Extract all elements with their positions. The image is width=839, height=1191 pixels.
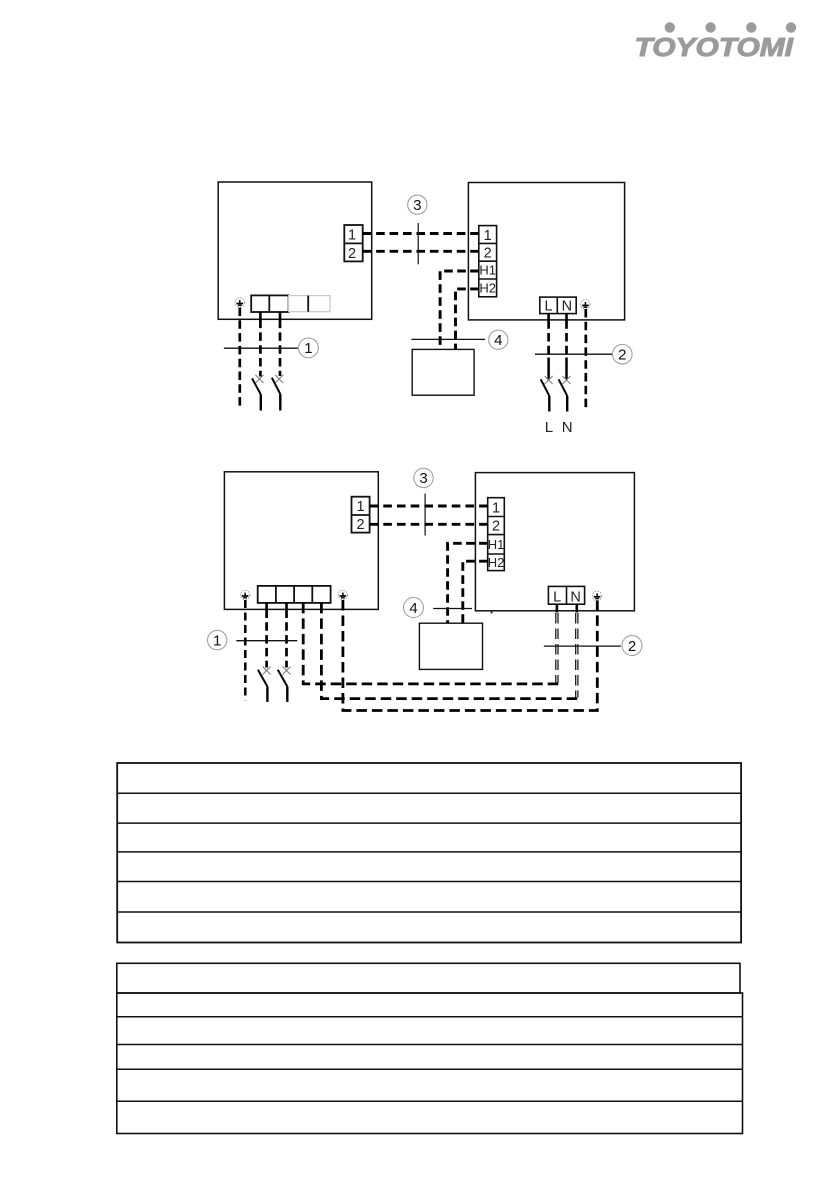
loop wire cell4 to N D2 (321, 603, 578, 699)
terminal block L/N outdoor D2 (548, 586, 584, 604)
part 4 box D1 (412, 349, 474, 395)
wire N dashed D1 (565, 320, 568, 357)
breaker x-mark 2 D2 (283, 667, 291, 675)
svg-text:H1: H1 (479, 263, 496, 278)
breaker blade L D1 (541, 379, 550, 396)
callout circle 2 D1 (613, 344, 633, 364)
loop wire riser N D2 (hollow dash) (576, 613, 578, 698)
callout leader 4 D1 (411, 338, 485, 340)
wire stub cell2 indoor D2 (285, 603, 288, 610)
table 2 row line d (117, 1100, 743, 1102)
callout leader 4 D2 (433, 608, 472, 610)
table 2 row line b (117, 1044, 743, 1046)
wire stub cell2 indoor D1 (279, 312, 282, 320)
table 1 frame (117, 763, 741, 943)
table 1 row line c (117, 851, 741, 853)
callout circle 3 D1 (408, 195, 427, 214)
supply wire B solid tail D1 (279, 394, 281, 410)
loop wire ground to ground D2 (343, 600, 597, 711)
outdoor unit box D2 (475, 473, 634, 611)
table 2 header row (117, 963, 740, 993)
callout leader 1 D1 (224, 347, 298, 349)
breaker blade 2 D2 (278, 670, 288, 687)
svg-text:1: 1 (484, 228, 492, 244)
breaker x-mark N D1 (563, 376, 571, 384)
table 1 row line e (117, 911, 741, 913)
supply wire B dashed D1 (279, 320, 282, 376)
wire N solid tail D1 (566, 396, 568, 412)
part 4 box D2 (419, 623, 482, 669)
supply wire 1 dashed D2 (265, 610, 268, 668)
callout tick 3 D1 (417, 223, 419, 264)
table 2 row line a (117, 1016, 743, 1018)
svg-text:2: 2 (618, 347, 626, 364)
wire H2 to part4 D2 (463, 561, 488, 623)
supply wire 2 solid tail D2 (286, 687, 288, 702)
wire L solid tail D1 (548, 396, 550, 412)
terminal block 1/2/H1/H2 outdoor D2 (488, 498, 505, 571)
ground symbol indoor D1 (235, 298, 244, 307)
table 2 body frame (117, 993, 743, 1134)
svg-text:4: 4 (409, 600, 417, 617)
ground symbol indoor-left D2 (240, 590, 249, 599)
svg-text:L: L (544, 299, 552, 315)
callout circle 2 D2 (622, 636, 642, 656)
outdoor unit box D1 (468, 183, 624, 320)
ground wire indoor D2 (244, 600, 247, 700)
ground wire indoor D1 (238, 308, 241, 408)
callout leader 2 D1 (535, 353, 613, 355)
table 2 row line c (117, 1068, 743, 1070)
TOYOTOMI logo dots (665, 22, 797, 32)
breaker blade A D1 (252, 378, 261, 394)
terminal block 1/2 indoor D2 (352, 497, 370, 533)
svg-text:2: 2 (484, 246, 492, 262)
breaker x-mark A D1 (256, 375, 264, 383)
wire stub L outdoor D1 (547, 314, 550, 321)
svg-text:4: 4 (494, 332, 502, 349)
callout circle 3 D2 (414, 468, 433, 487)
wire H2 to part4 D1 (456, 289, 479, 350)
svg-text:N: N (562, 419, 573, 436)
loop wire riser L D2 (hollow dash) (556, 613, 558, 683)
terminal strip indoor D2 (4 cells) (258, 586, 331, 603)
svg-text:3: 3 (413, 197, 421, 214)
terminal block 1/2/H1/H2 outdoor D1 (479, 226, 497, 297)
callout circle 4 D1 (489, 330, 508, 349)
breaker x-mark L D1 (545, 376, 553, 384)
terminal block L/N outdoor D1 (540, 297, 576, 314)
wire 2-2 interconnect D1 (363, 250, 479, 253)
svg-text:2: 2 (492, 519, 500, 535)
svg-text:H1: H1 (488, 537, 505, 552)
wire L dashed D1 (547, 320, 550, 357)
table 1 row line a (117, 792, 741, 794)
svg-text:H2: H2 (488, 555, 505, 570)
indoor unit box D1 (218, 182, 372, 319)
callout circle 1 D2 (208, 630, 227, 649)
svg-text:TOYOTOMI: TOYOTOMI (635, 32, 794, 62)
svg-text:N: N (562, 299, 572, 315)
callout leader 2 D2 (544, 645, 621, 647)
svg-text:1: 1 (304, 340, 312, 357)
loop wire cell3 to L D2 (303, 603, 558, 684)
wire 1-1 interconnect D2 (370, 505, 488, 508)
svg-text:1: 1 (356, 499, 364, 515)
ground symbol outdoor D1 (581, 300, 590, 309)
stray dot D2 (490, 611, 492, 613)
breaker blade N D1 (559, 379, 568, 396)
callout tick 3 D2 (424, 494, 426, 536)
supply wire A dashed D1 (259, 320, 262, 377)
table 1 row line b (117, 822, 741, 824)
svg-text:2: 2 (348, 246, 356, 262)
supply wire 2 dashed D2 (285, 610, 288, 668)
ground wire outdoor D1 (584, 309, 587, 409)
terminal block 1/2 indoor D1 (344, 225, 362, 261)
wire H1 to part4 D1 (440, 271, 479, 349)
breaker x-mark B D1 (275, 375, 283, 383)
wire stub L outdoor D2 (556, 604, 559, 612)
terminal strip indoor D1 (faint cells) (289, 296, 330, 312)
svg-text:N: N (570, 590, 580, 606)
svg-text:1: 1 (492, 500, 500, 516)
wire 2-2 interconnect D2 (370, 523, 488, 526)
supply wire A solid tail D1 (260, 395, 262, 411)
wire stub cell1 indoor D2 (265, 603, 268, 610)
terminal strip indoor D1 (solid cells) (251, 295, 288, 312)
table 1 row line d (117, 881, 741, 883)
supply wire 1 solid tail D2 (266, 687, 268, 702)
indoor unit box D2 (224, 472, 378, 610)
wire stub N outdoor D2 (575, 604, 578, 612)
svg-text:L: L (553, 590, 561, 606)
callout circle 1 D1 (299, 338, 319, 358)
svg-text:1: 1 (213, 632, 221, 649)
callout leader 1 D2 (236, 640, 297, 642)
wire stub cell1 indoor D1 (259, 312, 262, 320)
ground symbol outdoor D2 (592, 591, 601, 600)
wire L solid mid D1 (547, 358, 550, 380)
breaker x-mark 1 D2 (263, 667, 271, 675)
ground symbol indoor-right D2 (338, 590, 347, 599)
svg-text:2: 2 (628, 638, 636, 655)
svg-text:2: 2 (356, 517, 364, 533)
wire stub N outdoor D1 (565, 314, 568, 321)
wire H1 to part4 D2 (448, 543, 488, 623)
wire 1-1 interconnect D1 (363, 232, 479, 235)
svg-text:H2: H2 (479, 281, 496, 296)
breaker blade 1 D2 (258, 670, 268, 687)
svg-text:1: 1 (348, 228, 356, 244)
svg-text:L: L (545, 419, 553, 436)
wire N solid mid D1 (565, 358, 568, 380)
breaker blade B D1 (272, 378, 281, 394)
svg-text:3: 3 (419, 470, 427, 487)
callout circle 4 D2 (404, 598, 424, 618)
